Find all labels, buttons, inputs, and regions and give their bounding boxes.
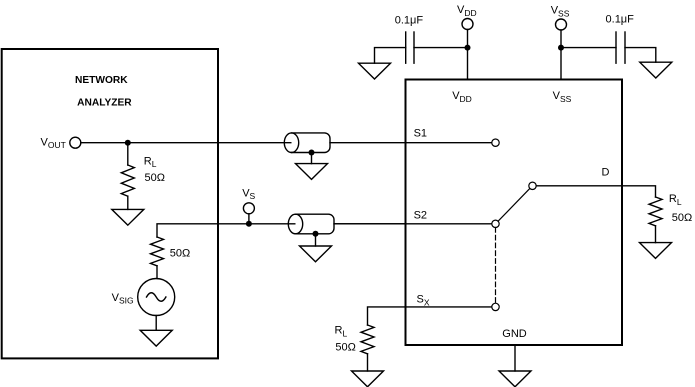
wire VDD to cap C1 (414, 47, 468, 49)
terminal VS (243, 203, 254, 214)
ground cap right (640, 62, 672, 78)
svg-text:D: D (602, 166, 610, 178)
ground coax C1 (296, 164, 328, 180)
svg-text:0.1μF: 0.1μF (606, 14, 635, 26)
switch contact Sx (492, 303, 499, 310)
wire VSIG to ground (155, 316, 157, 331)
wire D out (536, 186, 655, 197)
wire RL (D) to ground (655, 226, 657, 243)
svg-text:S1: S1 (414, 128, 427, 140)
wire VDD (467, 30, 469, 80)
svg-text:50Ω: 50Ω (335, 341, 355, 353)
wire VOUT to coax1 (81, 142, 293, 144)
node VDD junction (465, 45, 471, 51)
wire cap left to ground (375, 48, 406, 64)
wire coax C1 shield stub (311, 153, 313, 164)
svg-text:RL: RL (144, 155, 157, 169)
ground cap left (359, 63, 391, 79)
wire VSS to cap C2 (561, 47, 616, 49)
sine wave VSIG (147, 293, 166, 302)
wire coax C2 shield stub (315, 234, 317, 246)
svg-text:50Ω: 50Ω (170, 248, 190, 260)
wire switch dashed S2 to Sx (495, 228, 497, 304)
capacitor 0.1uF left (405, 32, 407, 63)
wire cap right to ground (625, 48, 656, 63)
resistor RL (Sx) (361, 325, 374, 354)
terminal VOUT (70, 137, 81, 148)
wire resistor to VSIG (156, 266, 158, 279)
svg-text:RL: RL (669, 193, 682, 207)
source VSIG (138, 279, 175, 316)
resistor RL (D) (649, 197, 662, 226)
svg-text:NETWORK: NETWORK (75, 75, 128, 86)
ground GND (499, 371, 531, 387)
node junction VS (246, 221, 252, 227)
svg-text:VS: VS (242, 187, 255, 201)
terminal VSS (556, 19, 567, 30)
wire coax C1 to S1 (330, 142, 492, 144)
svg-text:VOUT: VOUT (41, 136, 66, 150)
svg-text:50Ω: 50Ω (145, 172, 165, 184)
node coax C1 shield (309, 150, 315, 156)
ground RL (112, 209, 144, 225)
svg-text:ANALYZER: ANALYZER (77, 98, 132, 109)
coax C2 ellipse (288, 214, 302, 234)
svg-text:SX: SX (417, 294, 430, 308)
resistor RL (network analyzer) (121, 165, 134, 196)
wire RL bottom (127, 196, 129, 209)
resistor 50ohm source (151, 237, 164, 266)
coax C2 body (296, 214, 335, 234)
wire coax C2 to S2 (334, 223, 492, 225)
switch contact S1 (492, 139, 499, 146)
ground RL (D) (640, 243, 672, 259)
node junction VOUT/RL (125, 140, 131, 146)
svg-text:RL: RL (335, 325, 348, 339)
svg-text:50Ω: 50Ω (672, 212, 692, 224)
capacitor 0.1uF right (615, 32, 617, 63)
svg-text:VSS: VSS (551, 5, 570, 19)
switch pole D (529, 182, 536, 189)
wire VSIG corner (157, 224, 406, 237)
svg-text:0.1μF: 0.1μF (395, 15, 424, 27)
wire Sx (368, 307, 492, 325)
wire RL top (127, 143, 129, 165)
ground VSIG (140, 330, 172, 346)
coax C1 body (292, 133, 331, 153)
svg-text:VDD: VDD (452, 90, 472, 104)
switch arm S2 to D (498, 188, 530, 221)
svg-text:VDD: VDD (457, 4, 477, 18)
wire VS stub (248, 214, 250, 224)
wire VSS (560, 30, 562, 80)
wire GND (514, 345, 516, 371)
wire RL (Sx) to ground (367, 354, 369, 371)
svg-text:VSIG: VSIG (112, 292, 134, 306)
svg-text:VSS: VSS (553, 90, 572, 104)
coax C1 ellipse (284, 133, 298, 153)
box: switch IC (406, 80, 623, 346)
ground RL (Sx) (352, 371, 384, 387)
terminal VDD (462, 19, 473, 30)
box: network analyzer (2, 49, 218, 358)
node coax C2 shield (313, 231, 319, 237)
ground coax C2 (300, 246, 332, 262)
svg-text:GND: GND (502, 328, 527, 340)
node VSS junction (558, 45, 564, 51)
switch contact S2 (492, 220, 499, 227)
svg-text:S2: S2 (414, 210, 427, 222)
